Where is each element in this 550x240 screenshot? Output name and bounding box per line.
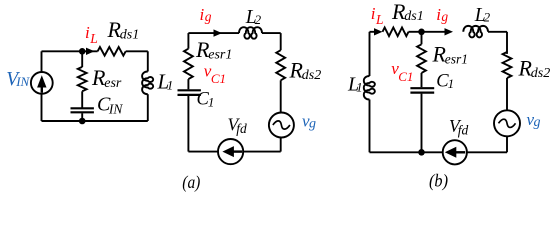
svg-text:Rds2: Rds2 bbox=[518, 56, 550, 82]
resistor Rds2 bbox=[276, 50, 285, 80]
wire bbox=[369, 100, 371, 153]
node D bbox=[418, 149, 425, 156]
resistor Resr1b bbox=[417, 44, 426, 73]
arrow ig bbox=[214, 29, 223, 36]
caption (a) bbox=[182, 172, 200, 192]
resistor Resr1 bbox=[184, 49, 193, 79]
wire bbox=[488, 31, 507, 33]
wire bbox=[369, 32, 371, 76]
label vgb bbox=[527, 110, 541, 130]
node C bbox=[418, 29, 425, 36]
wire bbox=[187, 96, 189, 152]
arrow of VIN bbox=[37, 75, 46, 93]
source Vfd bbox=[218, 139, 243, 164]
label ig bbox=[200, 5, 212, 24]
label Rds2 bbox=[289, 58, 322, 84]
svg-text:CIN: CIN bbox=[97, 94, 123, 117]
arrow of Vfdb bbox=[445, 147, 465, 158]
svg-text:L2: L2 bbox=[245, 7, 262, 28]
wire bbox=[81, 51, 83, 67]
capacitor C1 bbox=[178, 90, 201, 95]
arrow iL bbox=[86, 48, 95, 55]
wire bbox=[188, 32, 239, 34]
label Resr1b bbox=[432, 42, 469, 67]
svg-text:vC1: vC1 bbox=[204, 62, 226, 87]
label L2 bbox=[245, 7, 262, 28]
label Vfdb bbox=[449, 116, 468, 137]
svg-text:iL: iL bbox=[85, 23, 98, 46]
label L1 bbox=[157, 70, 174, 94]
svg-text:Vfd: Vfd bbox=[449, 116, 468, 137]
label L1b bbox=[347, 73, 363, 95]
wire bbox=[81, 113, 83, 121]
resistor Resr bbox=[78, 67, 87, 91]
svg-text:C1: C1 bbox=[436, 72, 454, 92]
arrow of Vfd bbox=[222, 146, 242, 157]
resistor Rds1b bbox=[383, 28, 409, 37]
arrow igb bbox=[445, 28, 454, 35]
inductor L1 bbox=[142, 72, 153, 95]
label vC1 bbox=[204, 62, 226, 87]
wire bbox=[42, 50, 98, 52]
inductor L1b bbox=[364, 76, 375, 100]
svg-text:ig: ig bbox=[200, 5, 212, 24]
resistor Rds1 bbox=[98, 47, 126, 56]
svg-text:C1: C1 bbox=[197, 90, 215, 110]
wire bbox=[506, 136, 508, 152]
svg-text:vC1: vC1 bbox=[391, 59, 413, 84]
svg-text:VIN: VIN bbox=[6, 69, 30, 90]
label Vfd bbox=[228, 115, 247, 136]
node A bbox=[79, 48, 86, 55]
inductor L2 bbox=[239, 27, 262, 39]
node B bbox=[79, 118, 86, 125]
svg-text:L1: L1 bbox=[157, 70, 174, 94]
svg-text:Rds1: Rds1 bbox=[391, 0, 424, 24]
label iL bbox=[85, 23, 98, 46]
wire bbox=[467, 151, 507, 153]
wire bbox=[147, 51, 149, 71]
source VIN bbox=[31, 72, 53, 94]
svg-text:(a): (a) bbox=[182, 172, 200, 192]
label vg bbox=[302, 112, 316, 132]
svg-text:Vfd: Vfd bbox=[228, 115, 247, 136]
inductor L2b bbox=[463, 26, 488, 38]
wire bbox=[370, 151, 443, 153]
wire bbox=[421, 94, 423, 153]
wire bbox=[421, 73, 423, 87]
svg-text:vg: vg bbox=[527, 110, 541, 130]
source Vfdb bbox=[443, 140, 467, 164]
arrow iLb bbox=[370, 28, 383, 35]
svg-text:iL: iL bbox=[371, 4, 384, 27]
wire bbox=[280, 138, 282, 152]
svg-text:Resr1: Resr1 bbox=[432, 42, 469, 67]
caption (b) bbox=[429, 171, 448, 191]
label Rds1 bbox=[107, 17, 140, 42]
label igb bbox=[436, 5, 448, 24]
label Resr bbox=[91, 65, 122, 91]
wire bbox=[126, 50, 148, 52]
wire bbox=[187, 33, 189, 49]
svg-text:Resr1: Resr1 bbox=[195, 37, 232, 63]
label Rds1b bbox=[391, 0, 424, 24]
svg-text:Rds1: Rds1 bbox=[107, 17, 140, 42]
capacitor C1b bbox=[410, 88, 434, 92]
wire bbox=[506, 78, 508, 110]
label C1 bbox=[197, 90, 215, 110]
wire bbox=[187, 79, 189, 89]
wire bbox=[81, 91, 83, 107]
wire bbox=[280, 33, 282, 50]
label L2b bbox=[474, 5, 491, 26]
wire bbox=[262, 32, 281, 34]
svg-text:Resr: Resr bbox=[91, 65, 122, 91]
wire bbox=[243, 151, 281, 153]
capacitor CIN bbox=[71, 108, 94, 112]
resistor Rds2b bbox=[503, 52, 512, 78]
svg-text:vg: vg bbox=[302, 112, 316, 132]
wire bbox=[280, 80, 282, 112]
wire bbox=[422, 31, 447, 33]
label CIN bbox=[97, 94, 123, 117]
label VIN bbox=[6, 69, 30, 90]
label iLb bbox=[371, 4, 384, 27]
source vg bbox=[269, 113, 294, 138]
svg-text:L1: L1 bbox=[347, 73, 363, 95]
wire bbox=[42, 120, 148, 122]
wire bbox=[506, 32, 508, 54]
label Rds2b bbox=[518, 56, 550, 82]
svg-text:L2: L2 bbox=[474, 5, 491, 26]
wire bbox=[41, 51, 43, 121]
svg-text:ig: ig bbox=[436, 5, 448, 24]
wire bbox=[188, 151, 218, 153]
wire bbox=[409, 31, 422, 33]
wire bbox=[147, 94, 149, 121]
label C1b bbox=[436, 72, 454, 92]
svg-text:Rds2: Rds2 bbox=[289, 58, 322, 84]
label Resr1 bbox=[195, 37, 232, 63]
label vC1b bbox=[391, 59, 413, 84]
source vgb bbox=[494, 110, 520, 136]
wire bbox=[421, 32, 423, 45]
svg-text:(b): (b) bbox=[429, 171, 448, 191]
